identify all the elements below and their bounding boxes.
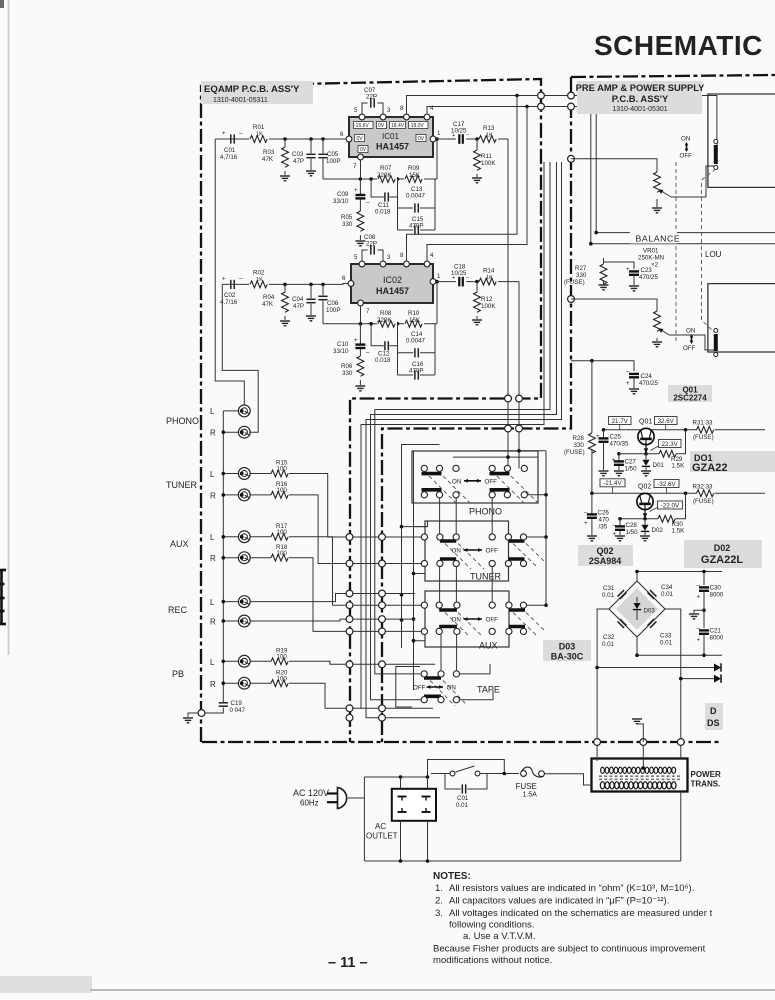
capacitor C33 xyxy=(648,619,657,628)
svg-text:470/35: 470/35 xyxy=(610,441,629,448)
svg-text:R11: R11 xyxy=(481,153,492,160)
svg-text:C03: C03 xyxy=(292,151,304,158)
svg-text:REC: REC xyxy=(168,605,188,615)
voltage box 22.3V xyxy=(651,440,682,451)
wire: phono R feed row xyxy=(480,451,546,469)
wire: L input row y=139 xyxy=(215,139,349,405)
svg-text:0.018: 0.018 xyxy=(375,209,391,216)
resistor R12 xyxy=(474,280,497,319)
svg-text:330: 330 xyxy=(574,442,585,449)
label D03 BA-30C xyxy=(543,640,591,661)
svg-text:C30: C30 xyxy=(710,585,722,592)
svg-text:470P: 470P xyxy=(409,223,423,230)
primary coil row xyxy=(600,782,676,789)
svg-text:100: 100 xyxy=(277,487,288,494)
svg-text:R06: R06 xyxy=(341,363,353,370)
svg-text:×2: ×2 xyxy=(651,262,659,269)
capacitor C30 xyxy=(697,583,724,611)
svg-text:330: 330 xyxy=(342,370,353,377)
dashed pot gang link xyxy=(675,162,677,343)
resistor R04 xyxy=(262,284,288,320)
scan edge artifacts left xyxy=(0,0,4,8)
wire: IC02 output row y=281.6 xyxy=(436,281,519,283)
svg-text:32.6V: 32.6V xyxy=(658,418,675,425)
ground D02 xyxy=(640,536,650,541)
ground C04 xyxy=(306,316,316,321)
svg-text:100: 100 xyxy=(277,676,288,683)
scan black bracket left edge xyxy=(0,569,6,625)
svg-text:FUSE: FUSE xyxy=(516,782,537,791)
svg-text:OFF: OFF xyxy=(680,153,693,160)
svg-text:–: – xyxy=(239,276,243,283)
svg-text:–: – xyxy=(697,626,701,633)
svg-text:R: R xyxy=(210,618,216,627)
loudness switch 2 xyxy=(683,328,718,357)
svg-text:C06: C06 xyxy=(327,300,339,307)
svg-text:1: 1 xyxy=(437,130,441,137)
wire: preamp feed w3 xyxy=(366,162,562,718)
svg-text:Q01: Q01 xyxy=(639,419,652,426)
resistor R11 xyxy=(474,137,497,177)
jack PB L xyxy=(238,655,250,667)
wire: IC01 output row y=139 xyxy=(436,138,508,140)
wire: diode row 2 xyxy=(681,678,714,680)
wire: switch L bus x=401.5 xyxy=(402,445,440,649)
resistor R10 xyxy=(404,310,424,328)
svg-text:0.01: 0.01 xyxy=(661,591,674,598)
svg-text:+: + xyxy=(354,187,358,194)
wire: pin7 row y=179 xyxy=(323,139,437,179)
capacitor C31 xyxy=(618,590,627,599)
svg-text:C34: C34 xyxy=(661,584,673,591)
wire: bridge top row y=571.5 xyxy=(637,572,722,586)
EQAMP label xyxy=(201,81,313,104)
resistor R29 xyxy=(659,450,685,469)
capacitor C04 xyxy=(292,284,316,315)
svg-text:(FUSE): (FUSE) xyxy=(693,498,714,505)
svg-text:TUNER: TUNER xyxy=(166,480,197,490)
svg-text:AC 120V: AC 120V xyxy=(293,788,329,798)
ground R05 xyxy=(355,241,365,246)
bottom shared dash-dot border xyxy=(202,741,720,743)
capacitor C26 xyxy=(584,493,609,535)
svg-text:ON: ON xyxy=(447,685,456,692)
svg-text:All capacitors values are indi: All capacitors values are indicated in “… xyxy=(449,896,669,907)
svg-text:0.01: 0.01 xyxy=(456,802,469,809)
svg-text:1.5A: 1.5A xyxy=(523,792,538,799)
svg-text:OFF: OFF xyxy=(486,548,499,555)
svg-text:1: 1 xyxy=(437,273,441,280)
svg-text:following conditions.: following conditions. xyxy=(449,920,534,931)
svg-text:7: 7 xyxy=(353,163,357,170)
node dots row1 xyxy=(283,137,287,141)
svg-text:R27: R27 xyxy=(575,265,587,272)
svg-text:100K: 100K xyxy=(481,303,496,310)
svg-text:C19: C19 xyxy=(231,700,243,707)
svg-text:22.3V: 22.3V xyxy=(662,441,679,448)
svg-text:+: + xyxy=(612,457,616,464)
svg-text:R13: R13 xyxy=(483,125,495,132)
svg-text:1K: 1K xyxy=(486,275,493,281)
svg-text:100: 100 xyxy=(277,550,288,557)
svg-text:C21: C21 xyxy=(710,628,722,635)
ground C23 xyxy=(629,286,639,291)
svg-text:–: – xyxy=(584,510,588,517)
svg-text:1/50: 1/50 xyxy=(626,529,639,536)
svg-text:0V: 0V xyxy=(357,136,364,142)
ground jack bus xyxy=(188,713,198,717)
svg-text:–: – xyxy=(697,583,701,590)
svg-text:C05: C05 xyxy=(327,151,339,158)
svg-text:OUTLET: OUTLET xyxy=(366,832,398,841)
switch bars tuner xyxy=(440,541,525,559)
svg-text:+: + xyxy=(452,276,455,282)
voltage box -21.4V xyxy=(600,479,625,494)
notes block xyxy=(433,871,713,966)
svg-text:+: + xyxy=(613,531,617,538)
capacitor C27 xyxy=(612,454,638,473)
switch block AUX xyxy=(421,591,545,651)
label D_ DS_ cut xyxy=(705,703,723,730)
dashed linkage phono xyxy=(429,476,539,504)
svg-text:1/50: 1/50 xyxy=(625,466,638,473)
svg-text:33/10: 33/10 xyxy=(333,198,349,205)
jack REC L xyxy=(238,596,250,608)
svg-text:R28: R28 xyxy=(573,435,585,442)
scan bottom gray band xyxy=(0,976,92,993)
ground R27 xyxy=(599,285,609,290)
wire: aux R feed xyxy=(289,558,425,632)
capacitor C06 xyxy=(318,284,340,323)
svg-text:1.5K: 1.5K xyxy=(672,463,686,470)
svg-text:All voltages indicated on the: All voltages indicated on the schematics… xyxy=(449,908,713,919)
svg-text:C27: C27 xyxy=(625,459,637,466)
svg-text:3: 3 xyxy=(387,107,391,114)
capacitor C16 loop xyxy=(398,361,436,380)
svg-text:8000: 8000 xyxy=(710,635,724,642)
svg-text:GZA22: GZA22 xyxy=(692,462,727,474)
svg-text:EQAMP P.C.B. ASS'Y: EQAMP P.C.B. ASS'Y xyxy=(204,84,300,95)
svg-text:0.01: 0.01 xyxy=(602,592,615,599)
label Q01 2SC2274 xyxy=(668,385,712,402)
svg-text:– 11 –: – 11 – xyxy=(328,955,368,971)
svg-text:+: + xyxy=(222,130,226,137)
jack AUX L xyxy=(238,531,250,543)
wire: preamp feed w2 xyxy=(371,162,557,700)
svg-text:470/25: 470/25 xyxy=(639,274,658,281)
svg-text:5: 5 xyxy=(354,107,358,114)
svg-text:0V: 0V xyxy=(418,136,425,142)
svg-text:R12: R12 xyxy=(481,296,493,303)
svg-text:C23: C23 xyxy=(641,267,653,274)
jack labels xyxy=(166,416,199,679)
svg-text:0V: 0V xyxy=(360,147,367,153)
wire: right col bus x=546 xyxy=(527,451,546,605)
svg-text:(FUSE): (FUSE) xyxy=(564,449,585,456)
dashed linkage tape xyxy=(430,681,466,707)
svg-text:R: R xyxy=(210,554,216,563)
resistor R16 xyxy=(250,481,288,498)
svg-text:C31: C31 xyxy=(603,585,615,592)
wire: pin8 supply row y=95.5 xyxy=(407,96,717,147)
svg-text:-21.4V: -21.4V xyxy=(603,480,622,487)
svg-text:C10: C10 xyxy=(337,341,349,348)
contacts tuner bottom xyxy=(421,560,427,566)
svg-text:Q02: Q02 xyxy=(596,546,613,556)
capacitor C05 xyxy=(318,139,340,179)
switch block PHONO xyxy=(412,449,546,517)
svg-text:0.0047: 0.0047 xyxy=(406,338,425,345)
svg-text:PRE AMP & POWER SUPPLY: PRE AMP & POWER SUPPLY xyxy=(576,82,706,93)
svg-text:47K: 47K xyxy=(262,156,274,163)
power transformer T01 xyxy=(592,759,688,792)
svg-text:100K: 100K xyxy=(481,160,496,167)
svg-text:All resistors values are indic: All resistors values are indicated in “o… xyxy=(449,883,694,894)
svg-text:3: 3 xyxy=(387,254,391,261)
core dashes xyxy=(599,775,680,777)
svg-text:470/25: 470/25 xyxy=(639,380,658,387)
svg-text:R: R xyxy=(210,429,216,438)
capacitor C17 xyxy=(451,121,470,144)
svg-text:R: R xyxy=(210,492,216,501)
svg-text:AUX: AUX xyxy=(479,641,498,651)
wire: preamp feed w4 xyxy=(361,162,544,708)
PREAMP label xyxy=(577,81,702,114)
jack TUNER R xyxy=(238,489,250,501)
wire: switch R bus x=413.5 xyxy=(414,451,447,690)
capacitor C03 xyxy=(292,139,316,170)
svg-text:R07: R07 xyxy=(380,165,392,172)
capacitor C11 xyxy=(371,179,397,216)
svg-text:OFF: OFF xyxy=(486,617,499,624)
resistor R27 xyxy=(600,258,634,284)
svg-text:1310-4001-05311: 1310-4001-05311 xyxy=(213,97,268,104)
svg-text:IC02: IC02 xyxy=(383,275,402,285)
tone box2 right xyxy=(708,284,775,352)
svg-text:R02: R02 xyxy=(253,270,265,277)
svg-text:R08: R08 xyxy=(380,310,392,317)
contacts phono bottom xyxy=(421,492,427,498)
svg-text:C01: C01 xyxy=(224,147,236,154)
svg-text:470P: 470P xyxy=(409,368,423,375)
capacitor C21 xyxy=(697,610,724,655)
wire: R28 drop x=591.9 xyxy=(591,361,593,494)
IC02 pins xyxy=(342,252,441,315)
resistor R13 xyxy=(478,125,498,143)
svg-text:C09: C09 xyxy=(337,191,349,198)
capacitor C12 xyxy=(371,324,397,364)
capacitor C08 xyxy=(362,234,383,261)
svg-text:–: – xyxy=(239,130,243,137)
resistor R08 xyxy=(377,310,397,328)
tone box1 top right xyxy=(708,94,775,187)
label D01 GZA22 xyxy=(690,451,775,472)
jack PB R xyxy=(238,677,250,689)
wire: +rail y=429.8 xyxy=(604,429,766,431)
svg-text:TAPE: TAPE xyxy=(477,685,500,695)
svg-text:AUX: AUX xyxy=(170,539,189,549)
svg-text:R04: R04 xyxy=(263,294,275,301)
svg-text:0.01: 0.01 xyxy=(602,641,615,648)
contacts tuner top xyxy=(421,534,427,540)
capacitor C10 xyxy=(333,324,370,356)
svg-text:+: + xyxy=(626,380,630,387)
EQAMP PCB dash-dot border xyxy=(201,79,541,742)
svg-text:C25: C25 xyxy=(610,434,622,441)
svg-text:HA1457: HA1457 xyxy=(376,142,409,152)
svg-text:IC01: IC01 xyxy=(382,132,399,141)
capacitor C25 xyxy=(596,430,629,470)
svg-text:/35: /35 xyxy=(599,524,608,531)
diode D03 inner xyxy=(633,597,656,620)
ground D01 xyxy=(641,471,651,476)
capacitor C01 line filter xyxy=(445,774,487,810)
switch bars aux xyxy=(439,610,525,627)
power switch S01 xyxy=(431,766,519,776)
svg-text:60Hz: 60Hz xyxy=(300,799,319,808)
svg-text:C28: C28 xyxy=(626,522,638,529)
svg-text:(FUSE): (FUSE) xyxy=(564,279,585,286)
wire: R input row y=284.4 xyxy=(222,284,351,433)
svg-text:0.018: 0.018 xyxy=(375,357,391,364)
resistor R32 xyxy=(693,484,714,506)
wire: tape right stubs xyxy=(460,664,493,700)
svg-text:100P: 100P xyxy=(326,158,340,165)
wire: outlet verticals xyxy=(401,777,428,861)
label Q02 2SA984 xyxy=(578,545,633,566)
wire: pin4 supply row y=106.5 xyxy=(427,107,591,115)
svg-text:AC: AC xyxy=(375,822,386,831)
svg-text:2SA984: 2SA984 xyxy=(589,556,622,566)
wire: transformer taps xyxy=(597,746,681,862)
resistor R05 xyxy=(341,211,364,240)
svg-text:47P: 47P xyxy=(293,303,304,310)
svg-text:15K: 15K xyxy=(409,172,421,179)
switch block TUNER xyxy=(421,521,545,582)
connector circles bottom border xyxy=(594,739,601,746)
svg-text:R01: R01 xyxy=(253,124,265,131)
wire: rec L feed xyxy=(250,594,415,602)
diode D01 xyxy=(642,454,665,470)
svg-text:DS: DS xyxy=(707,718,720,728)
AC plug xyxy=(327,788,347,809)
svg-text:1.5K: 1.5K xyxy=(672,528,686,535)
svg-text:PHONO: PHONO xyxy=(469,507,502,517)
svg-text:0.01: 0.01 xyxy=(660,640,673,647)
wire: Q01 emitter row xyxy=(646,430,686,454)
jack PHONO L xyxy=(238,405,250,417)
svg-text:+: + xyxy=(354,337,358,344)
ground R06 xyxy=(355,386,365,391)
svg-text:D02: D02 xyxy=(652,527,664,534)
wire: IC02 pin8 supply row y=234.2 xyxy=(407,96,518,262)
resistor R31 xyxy=(693,420,714,442)
svg-text:3.: 3. xyxy=(435,908,443,919)
resistor R03 xyxy=(262,139,288,175)
ground R04 xyxy=(280,321,290,326)
wire: AC top row y=777 xyxy=(364,774,427,778)
svg-text:SCHEMATIC: SCHEMATIC xyxy=(594,30,763,61)
wire: bridge right leg xyxy=(665,609,681,742)
svg-text:P.C.B. ASS'Y: P.C.B. ASS'Y xyxy=(612,93,669,104)
svg-text:-16.6V: -16.6V xyxy=(354,123,369,129)
svg-text:100P: 100P xyxy=(326,307,340,314)
svg-text:OFF: OFF xyxy=(683,345,696,352)
ground C26 xyxy=(587,536,597,541)
svg-text:100: 100 xyxy=(277,529,288,536)
resistor R18 xyxy=(250,544,288,561)
svg-text:220K: 220K xyxy=(377,172,392,179)
svg-text:R03: R03 xyxy=(263,149,275,156)
switch bars phono xyxy=(422,474,510,490)
resistor R09 xyxy=(404,165,424,183)
IC01 voltage boxes xyxy=(354,122,429,153)
svg-text:330: 330 xyxy=(576,272,587,279)
connector circle ground exit xyxy=(198,710,205,717)
switch block TAPE xyxy=(396,664,500,707)
wire: tape left bracket xyxy=(396,667,420,708)
fuse F01 xyxy=(516,767,545,798)
svg-text:NOTES:: NOTES: xyxy=(433,871,471,882)
svg-text:R32 33: R32 33 xyxy=(693,484,714,491)
wire: fuse to transformer xyxy=(544,774,591,785)
capacitor C34 xyxy=(648,590,657,599)
voltage box -22.0V xyxy=(650,501,683,512)
svg-text:C24: C24 xyxy=(641,373,653,380)
resistor R06 xyxy=(341,356,364,385)
IC01 pins xyxy=(340,105,441,170)
svg-text:+: + xyxy=(697,637,701,644)
svg-text:ON: ON xyxy=(452,617,461,624)
svg-text:ON: ON xyxy=(452,479,461,486)
wire: tuner R feed xyxy=(289,495,425,564)
svg-text:1K: 1K xyxy=(256,277,263,283)
svg-text:a. Use a V.T.V.M.: a. Use a V.T.V.M. xyxy=(463,931,536,942)
wire: -rail y=493.3 xyxy=(592,492,765,494)
capacitor C24 xyxy=(626,368,658,388)
svg-text:1K: 1K xyxy=(256,132,263,138)
wire: aux L feed xyxy=(289,537,425,605)
svg-text:ON: ON xyxy=(686,328,695,335)
AC outlet xyxy=(392,789,436,821)
jack TUNER L xyxy=(238,468,250,480)
bridge rectifier D03 xyxy=(609,581,665,637)
wire: phono L feed row xyxy=(453,457,539,468)
capacitor C01 xyxy=(220,130,243,161)
jack REC R xyxy=(238,615,250,627)
svg-text:PHONO: PHONO xyxy=(166,416,199,426)
svg-text:8: 8 xyxy=(400,252,404,259)
svg-text:L: L xyxy=(210,598,215,607)
transistor Q02 xyxy=(637,493,653,518)
svg-text:PB: PB xyxy=(172,669,184,679)
svg-text:1K: 1K xyxy=(486,133,493,139)
wire: AC bottom row y=861 xyxy=(364,860,680,862)
contacts phono top xyxy=(421,465,427,471)
svg-text:47K: 47K xyxy=(262,301,274,308)
op-amp IC02 HA1457 xyxy=(351,264,433,303)
svg-text:VR01: VR01 xyxy=(643,248,659,255)
svg-text:0.0047: 0.0047 xyxy=(406,193,425,200)
wire: bridge bottom row y=655.2 xyxy=(637,637,722,655)
svg-text:C26: C26 xyxy=(598,510,610,517)
dashed mech link loudness xyxy=(702,169,716,332)
svg-text:33/10: 33/10 xyxy=(333,348,349,355)
capacitor C19 xyxy=(219,700,246,714)
resistor R19 xyxy=(250,648,288,665)
svg-text:L: L xyxy=(210,470,215,479)
svg-text:D03: D03 xyxy=(644,608,656,615)
